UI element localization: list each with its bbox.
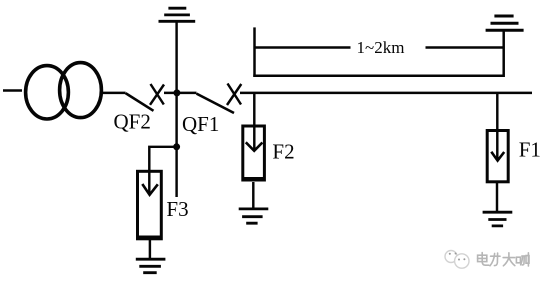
svg-text:F1: F1 — [519, 137, 541, 161]
svg-text:1~2km: 1~2km — [357, 38, 405, 57]
svg-text:QF1: QF1 — [182, 112, 219, 136]
svg-text:QF2: QF2 — [114, 110, 151, 134]
svg-text:F2: F2 — [272, 139, 294, 163]
svg-text:F3: F3 — [166, 197, 188, 221]
